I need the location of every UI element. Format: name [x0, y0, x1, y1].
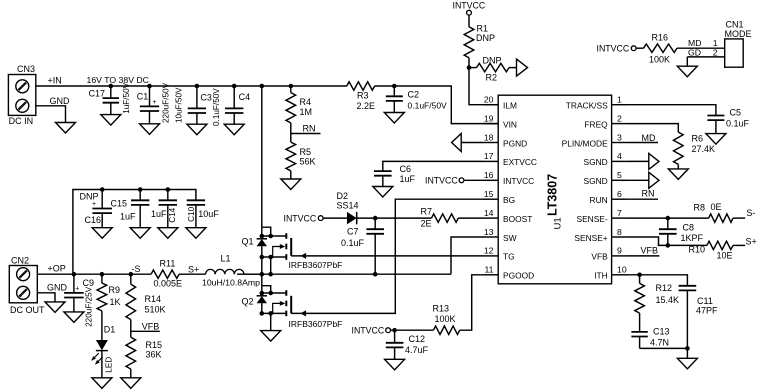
svg-text:0E: 0E — [711, 202, 722, 212]
ground (C6) — [373, 187, 393, 198]
svg-text:GND: GND — [50, 96, 71, 106]
svg-text:C12: C12 — [409, 334, 426, 344]
svg-text:S+: S+ — [188, 265, 199, 275]
svg-text:10: 10 — [617, 265, 627, 275]
capacitor C3 — [196, 86, 198, 108]
resistor R4 — [289, 84, 294, 89]
svg-text:R2: R2 — [486, 72, 498, 82]
svg-text:+IN: +IN — [48, 76, 62, 86]
svg-text:R4: R4 — [300, 97, 312, 107]
connector CN3 (DC IN) — [8, 75, 35, 116]
ground (C4) — [224, 124, 244, 135]
off-page arrow PGND (pin 18) — [461, 142, 484, 144]
svg-text:VFB: VFB — [142, 321, 160, 331]
pin 4 SGND (stub+number+label) — [612, 160, 627, 162]
ground (CN2) — [45, 302, 65, 313]
capacitor C7 — [374, 218, 376, 229]
resistor R1 (DNP) — [468, 15, 470, 27]
svg-text:2.2E: 2.2E — [357, 101, 376, 111]
ground (C2) — [384, 113, 404, 124]
resistor R3 — [347, 82, 375, 90]
svg-text:47PF: 47PF — [696, 305, 718, 315]
svg-text:INTVCC: INTVCC — [352, 326, 385, 336]
wire SW rail to L1 and C7 — [237, 273, 451, 275]
capacitor C6 — [374, 170, 392, 172]
svg-text:TG: TG — [503, 252, 515, 262]
svg-text:16V TO 38V DC: 16V TO 38V DC — [87, 75, 149, 85]
pin 10 ITH (stub+number+label) — [612, 274, 627, 276]
svg-text:C13: C13 — [653, 326, 670, 336]
capacitor C15 — [139, 190, 141, 201]
svg-text:GD: GD — [688, 47, 701, 57]
svg-text:7: 7 — [617, 208, 622, 218]
resistor R16 — [636, 47, 644, 49]
svg-text:FREQ: FREQ — [584, 119, 608, 129]
svg-text:ITH: ITH — [594, 271, 608, 281]
wire +IN rail 16V TO 38V DC — [36, 85, 347, 87]
svg-text:Q2: Q2 — [242, 296, 254, 306]
svg-text:R11: R11 — [160, 258, 176, 268]
svg-text:R9: R9 — [109, 285, 121, 295]
svg-text:8: 8 — [617, 227, 622, 237]
connector CN1 MODE body — [725, 39, 744, 67]
svg-text:0.1uF: 0.1uF — [341, 238, 365, 248]
wire TRACK/SS to C5 — [627, 105, 716, 116]
svg-text:6: 6 — [617, 189, 622, 199]
svg-text:C6: C6 — [400, 164, 412, 174]
capacitor C12 — [392, 328, 397, 333]
svg-text:220uF/25V: 220uF/25V — [85, 286, 94, 327]
svg-text:15: 15 — [484, 189, 494, 199]
svg-text:R16: R16 — [652, 33, 669, 43]
wire SW net — [451, 237, 484, 274]
svg-text:20: 20 — [484, 95, 494, 105]
svg-text:PGOOD: PGOOD — [503, 271, 534, 281]
svg-text:TRACK/SS: TRACK/SS — [566, 101, 608, 111]
svg-text:INTVCC: INTVCC — [425, 176, 458, 186]
svg-text:C14: C14 — [168, 207, 177, 222]
ground (C5) — [706, 134, 726, 145]
svg-text:10uH/10.8Amp: 10uH/10.8Amp — [202, 278, 260, 288]
ground (R15) — [121, 378, 141, 389]
svg-text:2: 2 — [617, 113, 622, 123]
svg-text:S+: S+ — [746, 236, 757, 246]
svg-text:14: 14 — [484, 208, 494, 218]
svg-text:1K: 1K — [110, 297, 121, 307]
capacitor C14 — [167, 190, 169, 201]
svg-text:DNP: DNP — [483, 56, 502, 66]
wire GD to CN1 pin 2 — [687, 56, 724, 58]
capacitor C13 — [631, 331, 647, 333]
capacitor C17 — [110, 86, 112, 98]
off-page arrow SGND pin 4 — [627, 160, 649, 162]
node VIN to Q1 drain (vertical wire) — [261, 86, 263, 227]
svg-text:R13: R13 — [433, 303, 450, 313]
svg-text:MD: MD — [688, 38, 702, 48]
svg-text:VFB: VFB — [591, 252, 608, 262]
LED emission arrows — [92, 353, 99, 360]
pin 16 INTVCC (stub+number+label) — [484, 179, 499, 181]
capacitor C8 — [667, 218, 669, 229]
svg-text:1: 1 — [617, 95, 622, 105]
wire CN2 GND — [37, 293, 55, 302]
arrowhead (BG into Q2 gate) — [300, 310, 306, 316]
svg-text:CN1: CN1 — [726, 20, 744, 30]
wire output cap rail (DNP row) — [73, 190, 196, 275]
pin 15 BG (stub+number+label) — [484, 198, 499, 200]
svg-text:510K: 510K — [145, 305, 166, 315]
svg-text:100K: 100K — [649, 55, 670, 65]
svg-text:+OP: +OP — [48, 264, 66, 274]
resistor R5 — [286, 142, 296, 171]
svg-text:100K: 100K — [435, 314, 456, 324]
pin 20 ILM (stub+number+label) — [484, 104, 499, 106]
wire R11 to L1 — [179, 273, 206, 275]
svg-text:15.4K: 15.4K — [656, 295, 680, 305]
ground (CN3) — [56, 123, 76, 134]
svg-text:1uF: 1uF — [120, 211, 136, 221]
svg-text:SENSE+: SENSE+ — [574, 233, 607, 243]
ground (R6) — [668, 169, 688, 180]
svg-text:DNP: DNP — [80, 192, 99, 202]
svg-text:C3: C3 — [200, 93, 212, 103]
svg-text:Q1: Q1 — [242, 236, 254, 246]
svg-text:SGND: SGND — [583, 176, 607, 186]
capacitor C1 (polarized) — [149, 86, 151, 106]
svg-text:C5: C5 — [730, 108, 742, 118]
resistor R6 — [674, 132, 684, 164]
svg-text:SENSE-: SENSE- — [577, 214, 608, 224]
svg-text:SGND: SGND — [583, 157, 607, 167]
svg-text:INTVCC: INTVCC — [453, 1, 486, 11]
svg-text:1KPF: 1KPF — [681, 233, 704, 243]
off-page arrow SGND pin 5 — [627, 179, 649, 181]
off-page arrow (R2) — [517, 59, 528, 76]
capacitor C9 (polarized) — [73, 274, 75, 293]
ground (Q2 source) — [261, 331, 281, 342]
pin 2 FREQ (stub+number+label) — [612, 123, 627, 125]
pin 1 TRACK/SS (stub+number+label) — [612, 104, 627, 106]
capacitor C2 — [392, 84, 397, 89]
capacitor C16 (DNP, polarized) — [101, 190, 103, 209]
ground (R5) — [281, 179, 301, 190]
svg-text:C16: C16 — [85, 215, 102, 225]
wire RUN net RN — [627, 198, 658, 200]
transistor Q1 IRFB3607PbF — [262, 227, 271, 236]
wire CN3 GND to ground — [36, 106, 66, 123]
resistor R11 — [151, 270, 179, 278]
svg-text:SS14: SS14 — [337, 201, 359, 211]
svg-text:IRFB3607PbF: IRFB3607PbF — [289, 319, 343, 329]
svg-text:IRFB3607PbF: IRFB3607PbF — [289, 260, 343, 270]
pin 7 SENSE- (stub+number+label) — [612, 217, 627, 219]
svg-text:MODE: MODE — [725, 29, 752, 39]
svg-text:3: 3 — [617, 132, 622, 142]
svg-text:5: 5 — [617, 170, 622, 180]
wire +OP rail — [37, 273, 151, 275]
ground (CN1 GD) — [686, 57, 688, 66]
pin 5 SGND (stub+number+label) — [612, 179, 627, 181]
svg-text:4.7uF: 4.7uF — [405, 345, 429, 355]
svg-text:10E: 10E — [717, 251, 733, 261]
svg-text:1M: 1M — [300, 107, 313, 117]
svg-text:C4: C4 — [239, 92, 251, 102]
svg-text:36K: 36K — [146, 349, 162, 359]
svg-text:S-: S- — [746, 208, 755, 218]
svg-text:10uF/50V: 10uF/50V — [175, 87, 184, 123]
wire SENSE- to R8 — [627, 217, 709, 219]
svg-text:R3: R3 — [357, 91, 369, 101]
ground (C3) — [187, 124, 207, 135]
diode D2 SS14 — [323, 217, 348, 219]
svg-text:CN2: CN2 — [11, 256, 29, 266]
svg-text:56K: 56K — [300, 156, 316, 166]
svg-text:DC OUT: DC OUT — [10, 305, 45, 315]
resistor R14 — [130, 274, 132, 284]
svg-text:LED: LED — [105, 357, 114, 373]
svg-text:PLIN/MODE: PLIN/MODE — [562, 138, 608, 148]
ground (C17) — [101, 115, 121, 126]
svg-text:C2: C2 — [408, 90, 420, 100]
resistor R12 — [639, 275, 641, 284]
svg-text:11: 11 — [484, 265, 493, 275]
svg-text:SW: SW — [503, 233, 517, 243]
svg-text:RN: RN — [642, 188, 655, 198]
svg-text:D1: D1 — [104, 325, 116, 335]
capacitor C10 — [187, 199, 205, 201]
node RN (left) — [291, 133, 321, 135]
svg-text:C10: C10 — [187, 206, 196, 221]
wire EXTVCC to C6 — [383, 161, 484, 171]
connector CN2 (DC OUT) — [9, 266, 37, 303]
pin 18 PGND (stub+number+label) — [484, 142, 499, 144]
wire FREQ to R6 — [627, 124, 678, 133]
pin 8 SENSE+ (stub+number+label) — [612, 236, 627, 238]
svg-text:0.005E: 0.005E — [154, 278, 183, 288]
svg-text:9: 9 — [617, 246, 622, 256]
wire R3 to VIN corner — [375, 86, 499, 124]
ground (C10) — [186, 228, 206, 239]
pin 6 RUN (stub+number+label) — [612, 198, 627, 200]
svg-text:RN: RN — [303, 123, 316, 133]
transistor Q2 IRFB3607PbF — [261, 274, 263, 293]
ground (C14) — [158, 228, 178, 239]
svg-text:PGND: PGND — [503, 138, 527, 148]
ground (C1) — [140, 124, 160, 135]
svg-text:C17: C17 — [89, 89, 106, 99]
svg-text:C15: C15 — [111, 198, 128, 208]
svg-text:1: 1 — [713, 38, 718, 48]
inductor L1 — [206, 269, 244, 274]
wire PLIN/MODE net MD — [627, 142, 658, 144]
svg-text:ILM: ILM — [503, 101, 517, 111]
resistor R13 — [433, 326, 459, 334]
svg-text:220uF/50V: 220uF/50V — [161, 82, 170, 123]
resistor R7 — [432, 214, 459, 222]
svg-text:C8: C8 — [683, 222, 695, 232]
svg-text:C7: C7 — [347, 226, 359, 236]
pin 14 BOOST (stub+number+label) — [484, 217, 499, 219]
svg-text:RUN: RUN — [590, 195, 608, 205]
pin 13 SW (stub+number+label) — [484, 236, 499, 238]
svg-text:19: 19 — [484, 113, 494, 123]
svg-text:C9: C9 — [83, 278, 95, 288]
svg-text:4: 4 — [617, 151, 622, 161]
wire ITH RC bottom — [640, 347, 688, 349]
svg-text:MD: MD — [642, 133, 656, 143]
svg-text:+: + — [153, 99, 157, 106]
pin 3 PLIN/MODE (stub+number+label) — [612, 142, 627, 144]
svg-text:DC IN: DC IN — [9, 116, 33, 126]
svg-text:R15: R15 — [146, 340, 163, 350]
svg-text:-S: -S — [132, 264, 141, 274]
svg-text:C1: C1 — [137, 92, 149, 102]
ground (C16) — [92, 228, 112, 239]
svg-text:10uF: 10uF — [198, 209, 219, 219]
pin 19 VIN (stub+number+label) — [484, 123, 499, 125]
svg-text:0.1uF: 0.1uF — [726, 119, 750, 129]
svg-text:U1: U1 — [553, 217, 564, 229]
svg-text:R5: R5 — [300, 147, 312, 157]
svg-text:+: + — [75, 286, 79, 293]
svg-text:R12: R12 — [656, 283, 673, 293]
wire D2 to R7 — [357, 217, 432, 219]
svg-text:2E: 2E — [421, 218, 432, 228]
svg-text:27.4K: 27.4K — [692, 144, 716, 154]
ground (C9) — [64, 312, 84, 323]
svg-text:0.1uF/50V: 0.1uF/50V — [212, 88, 221, 126]
svg-text:L1: L1 — [221, 254, 231, 264]
svg-text:1uF: 1uF — [151, 209, 167, 219]
ground (ITH compensation) — [686, 348, 688, 358]
pin 11 PGOOD (stub+number+label) — [484, 274, 499, 276]
svg-text:DNP: DNP — [476, 33, 495, 43]
svg-text:R8: R8 — [694, 203, 706, 213]
pin 9 VFB (stub+number+label) — [612, 255, 627, 257]
svg-text:R6: R6 — [692, 134, 704, 144]
svg-text:+: + — [92, 201, 96, 208]
svg-text:R7: R7 — [421, 206, 433, 216]
wire L1 to SW node — [244, 273, 262, 275]
svg-text:1uF/50V: 1uF/50V — [122, 82, 131, 113]
svg-text:0.1uF/50V: 0.1uF/50V — [408, 101, 448, 111]
svg-text:D2: D2 — [337, 191, 349, 201]
pin 17 EXTVCC (stub+number+label) — [484, 160, 499, 162]
resistor R9 — [101, 274, 103, 283]
resistor R15 — [126, 337, 136, 369]
capacitor C4 — [233, 86, 235, 108]
svg-text:EXTVCC: EXTVCC — [503, 157, 537, 167]
svg-text:INTVCC: INTVCC — [284, 213, 317, 223]
capacitor C11 — [679, 285, 697, 287]
ground (C15) — [130, 228, 150, 239]
ground (D1) — [92, 378, 112, 389]
arrowhead (TG into Q1 gate) — [300, 253, 306, 259]
svg-text:R1: R1 — [477, 24, 489, 34]
svg-text:INTVCC: INTVCC — [597, 44, 630, 54]
svg-text:GND: GND — [47, 282, 68, 292]
svg-text:13: 13 — [484, 227, 494, 237]
wire R1 to ILM pin 20 — [469, 58, 498, 105]
svg-text:BG: BG — [503, 195, 515, 205]
resistor R10 — [707, 241, 733, 249]
capacitor C5 — [707, 115, 724, 117]
ground (C12) — [385, 359, 405, 370]
svg-text:18: 18 — [484, 132, 494, 142]
op-amp-style IC U1 LT3807 body — [498, 95, 611, 284]
svg-text:BOOST: BOOST — [503, 214, 532, 224]
svg-text:LT3807: LT3807 — [546, 174, 560, 216]
svg-text:17: 17 — [484, 151, 494, 161]
svg-text:VFB: VFB — [641, 245, 659, 255]
wire BG to Q2 gate — [291, 199, 483, 313]
svg-text:INTVCC: INTVCC — [503, 176, 534, 186]
svg-text:CN3: CN3 — [17, 64, 35, 74]
wire TG to Q1 gate — [291, 255, 483, 257]
svg-text:R10: R10 — [689, 245, 706, 255]
svg-text:C11: C11 — [697, 296, 713, 306]
wire PGOOD to R13 — [460, 275, 484, 330]
node VFB (left) — [131, 330, 160, 332]
svg-text:VIN: VIN — [503, 119, 517, 129]
resistor R2 (DNP) — [469, 67, 477, 69]
svg-text:R14: R14 — [145, 294, 162, 304]
wire VFB stub (pin 9) — [627, 255, 659, 257]
svg-text:12: 12 — [484, 246, 494, 256]
terminal INTVCC (R13/C12) — [390, 329, 433, 331]
pin 12 TG (stub+number+label) — [484, 255, 499, 257]
wire ITH net — [627, 275, 687, 286]
resistor R8 — [709, 214, 733, 222]
svg-text:1uF: 1uF — [400, 174, 416, 184]
svg-text:4.7N: 4.7N — [650, 337, 669, 347]
wire SENSE+ to R10 — [627, 237, 707, 245]
svg-text:16: 16 — [484, 170, 494, 180]
svg-text:2: 2 — [713, 47, 718, 57]
